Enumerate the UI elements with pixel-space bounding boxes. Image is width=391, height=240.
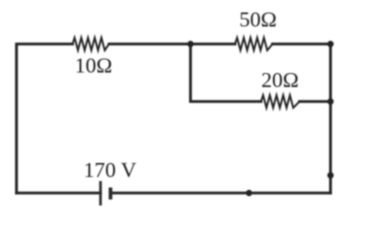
wire branch: node A down and right to 20Ω: [191, 44, 262, 102]
battery V1 long plate: [99, 181, 102, 206]
svg-text:20Ω: 20Ω: [261, 68, 298, 92]
node bottom-wire dot: [246, 190, 252, 196]
svg-text:10Ω: 10Ω: [75, 54, 112, 78]
wire bottom-left to battery: [17, 192, 101, 195]
wire from 10Ω to node A: [109, 43, 190, 46]
resistor R3 20Ω zigzag: [261, 95, 300, 108]
resistor R2 50Ω zigzag: [235, 38, 273, 51]
wire top-left: left vertical + top run to 10Ω: [17, 44, 73, 193]
wire 20Ω to right rail: [300, 100, 331, 103]
node 20Ω-right junction dot: [327, 98, 333, 104]
wire 50Ω to top-right corner: [273, 43, 331, 46]
node top-right junction dot: [327, 41, 333, 47]
wire right rail vertical: [329, 44, 332, 193]
battery V1 short plate: [109, 188, 113, 200]
resistor R1 10Ω zigzag: [73, 38, 110, 51]
node right-rail lower dot: [327, 172, 333, 178]
node A junction dot: [187, 41, 193, 47]
svg-text:50Ω: 50Ω: [239, 8, 276, 32]
wire bottom run from battery to bottom-right corner: [111, 192, 331, 195]
svg-text:170 V: 170 V: [84, 158, 137, 182]
wire node A to 50Ω: [191, 43, 236, 46]
